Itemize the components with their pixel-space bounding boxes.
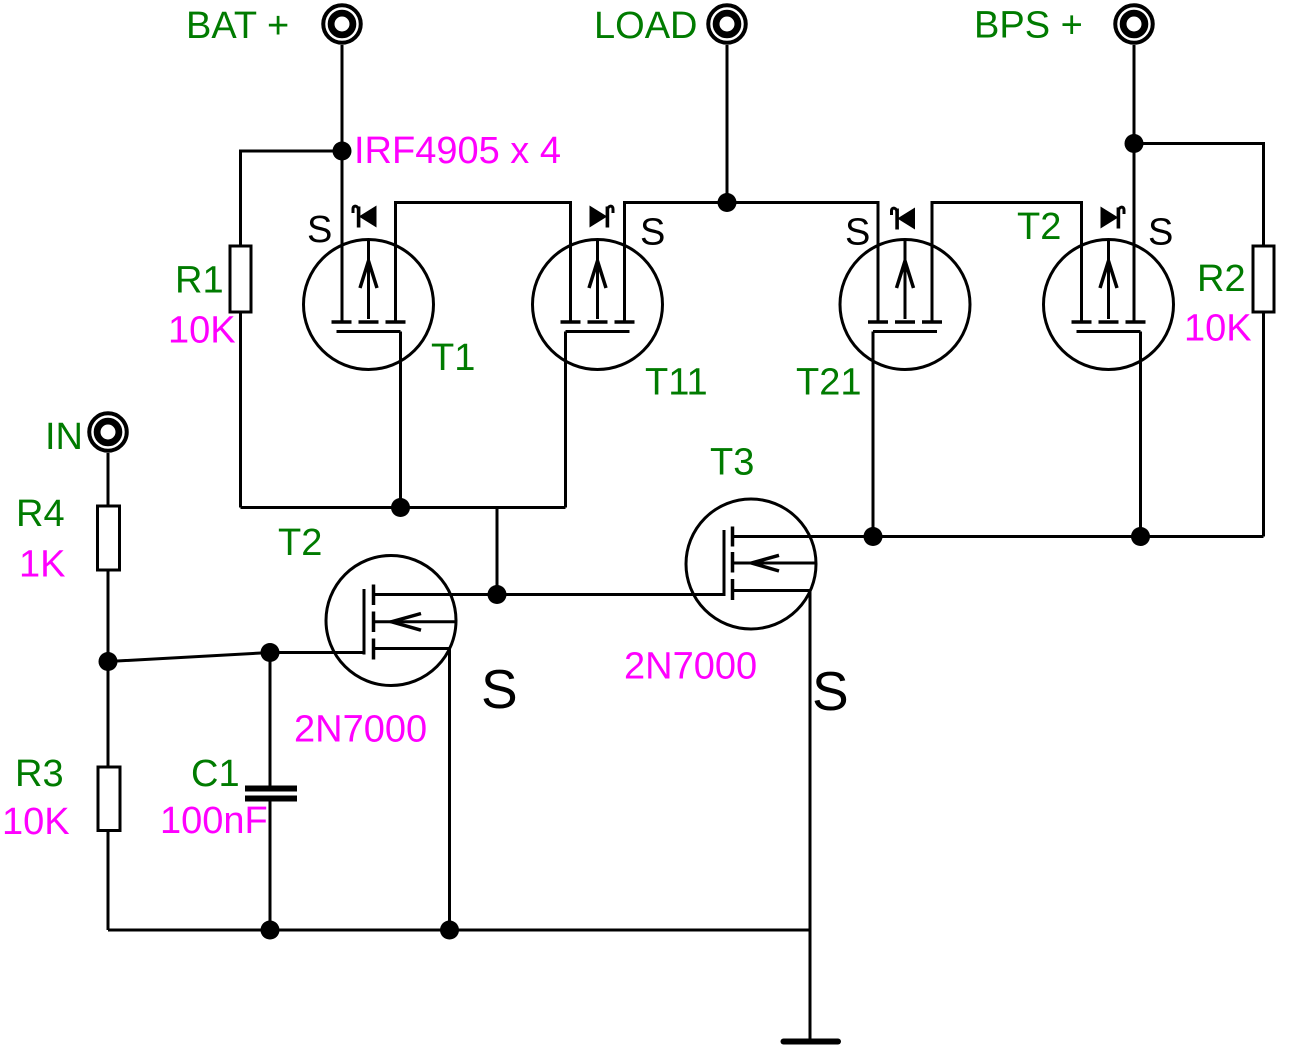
svg-text:S: S: [845, 212, 870, 254]
wire R4 bottom to node: [107, 570, 110, 662]
wire R2 branch top: [1134, 144, 1264, 247]
wire T11 source to T21 source bracket: [625, 203, 879, 322]
wire T3 drain to R2: [734, 535, 1264, 538]
wire R1 bottom to gate bus: [239, 312, 242, 508]
svg-text:T3: T3: [710, 442, 754, 484]
terminal BAT+: [323, 5, 361, 43]
svg-text:2N7000: 2N7000: [624, 646, 757, 688]
body diode of T21: [892, 208, 916, 230]
transistor T1 (IRF4905 P-MOSFET): [304, 240, 434, 370]
junction C1 bottom: [261, 921, 280, 940]
svg-text:T21: T21: [796, 362, 861, 404]
junction T2 gate (right): [1131, 527, 1150, 546]
svg-text:S: S: [812, 660, 849, 722]
svg-text:T1: T1: [431, 337, 475, 379]
wire T2 gate down: [1139, 332, 1142, 537]
svg-text:BAT +: BAT +: [186, 5, 289, 47]
svg-text:R1: R1: [175, 260, 224, 302]
wire R3 bottom: [107, 831, 110, 931]
ground: [784, 1039, 839, 1045]
svg-text:BPS +: BPS +: [974, 5, 1083, 47]
transistor T2 (2N7000 N-MOSFET): [326, 556, 497, 686]
wire node to T2 gate: [108, 653, 364, 662]
junction IN/R3/gate node: [99, 652, 118, 671]
svg-text:IN: IN: [45, 416, 83, 458]
wire T2 drain node to T3 gate: [497, 593, 724, 596]
junction T1 gate on bus: [391, 498, 410, 517]
svg-text:10K: 10K: [2, 801, 70, 843]
wire bus to T2 drain node: [496, 508, 499, 596]
wire R2 bottom to T3 drain wire: [1262, 312, 1265, 537]
wire T3 source down: [809, 591, 812, 1040]
wire T1 drain to T11 drain bracket: [396, 203, 571, 322]
svg-text:S: S: [481, 658, 518, 720]
terminal BPS+: [1115, 5, 1153, 43]
svg-text:T11: T11: [645, 362, 708, 404]
wire T1 gate down: [399, 332, 402, 508]
transistor T11 (IRF4905 P-MOSFET): [533, 240, 663, 370]
transistor T2 (IRF4905 P-MOSFET, right): [1044, 240, 1174, 370]
wire node to R3: [107, 662, 110, 768]
body diode of T2: [1101, 207, 1125, 229]
wire T21 gate down: [872, 332, 875, 537]
wire gate bus T1/T11: [241, 506, 566, 509]
wire IN down to R4: [107, 453, 110, 506]
svg-text:T2: T2: [278, 522, 322, 564]
body diode of T1: [353, 206, 377, 228]
resistor R4: [98, 506, 120, 570]
svg-text:S: S: [1148, 212, 1173, 254]
svg-text:100nF: 100nF: [160, 800, 268, 842]
terminal LOAD: [708, 5, 746, 43]
transistor T21 (IRF4905 P-MOSFET): [840, 240, 970, 370]
wire LOAD down: [726, 45, 729, 203]
resistor R2: [1253, 246, 1274, 312]
junction LOAD node: [718, 193, 737, 212]
resistor R1: [230, 246, 251, 312]
wire T11 gate down: [564, 332, 567, 508]
junction BAT/R1: [333, 142, 352, 161]
junction T2 source bottom: [440, 921, 459, 940]
junction BPS/R2: [1125, 134, 1144, 153]
svg-text:10K: 10K: [1184, 308, 1252, 350]
transistor T3 (2N7000 N-MOSFET): [686, 499, 817, 629]
junction C1 top: [261, 643, 280, 662]
svg-text:S: S: [640, 212, 665, 254]
capacitor C1: [245, 653, 297, 931]
svg-text:T2: T2: [1017, 206, 1061, 248]
resistor R3: [98, 767, 120, 831]
junction T2 drain node: [488, 585, 507, 604]
svg-text:10K: 10K: [168, 310, 236, 352]
wire R1 branch top: [241, 151, 343, 246]
terminal IN: [89, 413, 127, 451]
svg-text:2N7000: 2N7000: [294, 709, 427, 751]
svg-text:1K: 1K: [19, 544, 65, 586]
wire BPS+ down to T2 source: [1133, 45, 1136, 321]
svg-text:LOAD: LOAD: [594, 5, 697, 47]
svg-text:S: S: [307, 209, 332, 251]
svg-text:R4: R4: [16, 493, 65, 535]
wire T2 source down: [448, 649, 451, 931]
svg-text:IRF4905 x 4: IRF4905 x 4: [354, 130, 561, 172]
wire BAT+ to T1 source: [341, 45, 344, 321]
junction T21 gate: [864, 527, 883, 546]
wire T21 drain to T2 drain bracket: [932, 203, 1082, 322]
body diode of T11: [590, 206, 614, 228]
svg-text:C1: C1: [191, 753, 240, 795]
svg-text:R3: R3: [15, 753, 64, 795]
wire ground bus bottom: [108, 929, 810, 932]
svg-text:R2: R2: [1197, 258, 1246, 300]
